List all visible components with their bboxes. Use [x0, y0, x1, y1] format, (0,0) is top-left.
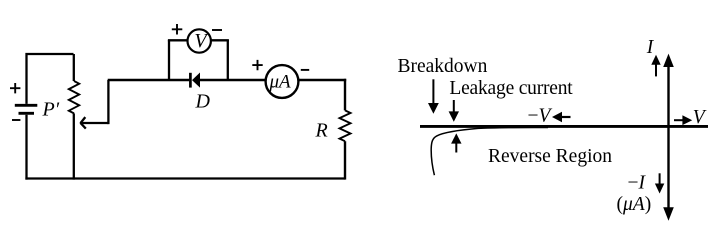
wire right branch top lead [344, 79, 346, 111]
svg-text:Leakage current: Leakage current [449, 78, 573, 99]
diode D triangle [192, 73, 200, 88]
voltmeter plus sign [172, 24, 183, 35]
voltmeter loop right vertical wire [227, 40, 229, 80]
-V left arrow shaft [561, 116, 571, 118]
diode D cathode bar [189, 73, 192, 88]
V right arrow shaft [674, 119, 684, 121]
svg-text:−I: −I [628, 173, 647, 194]
svg-text:D: D [195, 91, 211, 113]
wire battery bottom lead [25, 115, 27, 180]
wiper arrow wire [82, 122, 108, 124]
svg-text:V: V [693, 107, 707, 128]
wiper arrowhead barbs [80, 117, 85, 129]
-I down arrow shaft [659, 173, 661, 184]
breakdown arrowhead [428, 103, 439, 114]
wire right branch bottom lead [344, 141, 346, 179]
svg-text:−V: −V [528, 106, 553, 127]
svg-text:μA: μA [269, 72, 292, 93]
svg-text:(μA): (μA) [617, 194, 652, 215]
svg-text:Breakdown: Breakdown [398, 56, 488, 77]
reverse characteristic curve [431, 127, 548, 175]
wire main rail left segment [108, 79, 190, 81]
svg-text:P′: P′ [42, 99, 60, 121]
graph vertical axis top arrowhead [663, 54, 674, 67]
voltmeter loop left vertical wire [168, 40, 170, 80]
I up arrowhead [651, 55, 660, 65]
battery minus sign [12, 119, 20, 121]
microammeter U circle [266, 65, 299, 98]
-I down arrowhead [655, 184, 664, 194]
svg-text:R: R [315, 120, 328, 142]
wire main rail diode to ammeter [200, 79, 267, 81]
reverse region up arrow shaft [455, 142, 457, 153]
wire potentiometer top lead [73, 54, 75, 81]
battery plus sign [10, 83, 20, 93]
resistor R zigzag [340, 110, 351, 141]
wire wiper riser [107, 80, 109, 124]
leakage arrow shaft [453, 100, 455, 113]
graph vertical axis bottom arrowhead [663, 207, 674, 220]
battery P' plate long [15, 104, 38, 107]
svg-text:I: I [646, 37, 655, 58]
-V left arrowhead [552, 112, 562, 123]
voltmeter U circle [188, 29, 211, 52]
wire potentiometer bottom lead [73, 113, 75, 179]
V right arrowhead [682, 115, 692, 125]
breakdown arrow shaft [432, 79, 434, 104]
reverse region up arrowhead [451, 133, 461, 143]
graph vertical axis shaft [667, 64, 669, 210]
wire left-branch battery loop [27, 54, 74, 104]
voltmeter minus sign [212, 29, 222, 31]
voltmeter loop top-left wire [168, 39, 188, 41]
wire bottom rail [25, 177, 345, 179]
svg-text:Reverse Region: Reverse Region [488, 146, 612, 167]
battery P' plate short [19, 112, 35, 115]
graph horizontal axis -V..V [420, 125, 708, 128]
microammeter minus sign [301, 69, 309, 71]
leakage arrowhead [449, 111, 459, 121]
microammeter plus sign [252, 60, 262, 70]
I up arrow shaft [655, 64, 657, 76]
wire main rail ammeter to right corner [298, 79, 346, 81]
potentiometer zigzag [69, 81, 79, 113]
voltmeter loop top-right wire [211, 39, 229, 41]
